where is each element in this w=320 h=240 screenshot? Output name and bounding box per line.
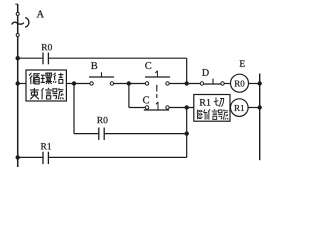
junction right rail row2	[258, 81, 262, 85]
wire row2 D to coil	[224, 83, 230, 85]
coil R0	[231, 74, 249, 92]
wire row2 B to C	[114, 83, 146, 85]
label D	[202, 69, 209, 76]
pushbutton D (NC)	[200, 79, 224, 86]
junction row2/x187	[185, 81, 189, 85]
wire row1 right	[49, 57, 187, 59]
wire row4 left	[74, 133, 98, 135]
junction row2/left rail	[16, 81, 20, 85]
contact R0 (row 4)	[99, 128, 104, 140]
label E	[240, 60, 245, 66]
junction row3/x187	[185, 105, 189, 109]
wire row4 right	[105, 133, 187, 135]
wire row1 left	[18, 57, 43, 59]
wire x187 row3 to row5	[186, 108, 188, 158]
label A	[37, 10, 44, 17]
junction row5/left rail	[16, 155, 20, 159]
contact C upper (NO)	[145, 71, 170, 86]
wire row2 box to B	[66, 83, 90, 85]
contact R1 (row 5)	[43, 152, 48, 164]
annotation box: loop-end signal	[26, 70, 66, 101]
wire coil R1 to right rail	[248, 107, 260, 109]
junction right rail row3	[258, 105, 262, 109]
wire row5 right	[49, 156, 187, 158]
breaker A	[12, 12, 29, 36]
right rail	[259, 74, 261, 161]
label C (lower)	[143, 96, 149, 103]
mechanical link dashes	[156, 85, 158, 100]
pushbutton B (NO)	[89, 72, 114, 85]
left rail	[15, 4, 18, 167]
label B	[91, 62, 97, 69]
junction node at x74	[72, 81, 76, 85]
annotation box: R1 cut-off signal	[194, 95, 230, 122]
wire row5 left	[18, 156, 43, 158]
contact C lower (NC)	[144, 102, 169, 110]
contact R0 (row 1)	[43, 53, 48, 65]
label R1 (row 5)	[41, 143, 47, 149]
wire row2 C to junction	[169, 83, 200, 85]
junction row4/x187	[185, 131, 189, 135]
wire drop x129 to row3	[128, 84, 130, 108]
wire row3 C to box	[169, 107, 194, 109]
wire coil R0 to right rail	[249, 83, 260, 85]
wire drop x74 row2 to row4	[73, 84, 75, 134]
label R0 (row 1)	[41, 44, 47, 50]
wire row1 drop to row2	[186, 58, 188, 83]
junction node at x129	[127, 81, 131, 85]
label R0 (row 4)	[97, 117, 103, 123]
label C (upper)	[145, 62, 151, 69]
wire row2 rail to box	[18, 83, 26, 85]
junction row1/left rail	[16, 56, 20, 60]
wire row3 left	[129, 107, 145, 109]
coil R1	[231, 99, 249, 117]
